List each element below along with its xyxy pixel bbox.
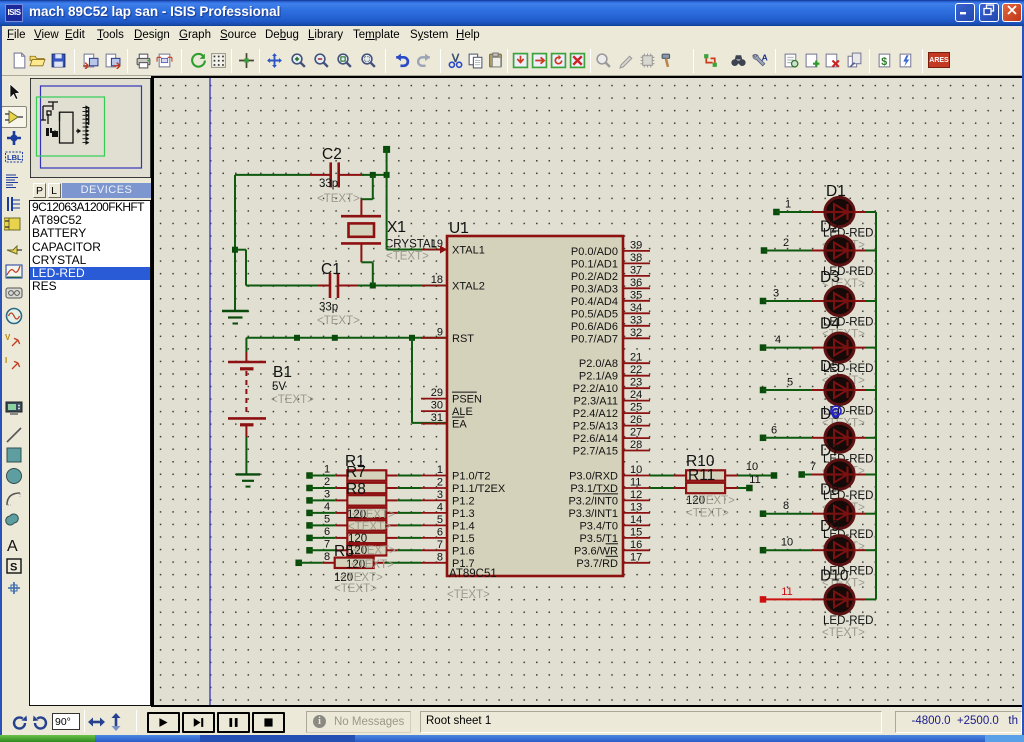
svg-text:<TEXT>: <TEXT> bbox=[317, 315, 360, 327]
svg-text:I: I bbox=[5, 356, 7, 365]
svg-text:25: 25 bbox=[630, 402, 642, 414]
svg-text:C1: C1 bbox=[321, 261, 341, 278]
svg-text:B1: B1 bbox=[273, 364, 292, 381]
svg-text:P1.4: P1.4 bbox=[452, 520, 475, 532]
svg-text:EA: EA bbox=[452, 419, 467, 431]
svg-text:7: 7 bbox=[324, 538, 330, 550]
svg-text:13: 13 bbox=[630, 501, 642, 513]
svg-text:P0.7/AD7: P0.7/AD7 bbox=[571, 333, 618, 345]
svg-text:XTAL2: XTAL2 bbox=[452, 281, 485, 293]
svg-text:P3.0/RXD: P3.0/RXD bbox=[569, 471, 618, 483]
svg-text:10: 10 bbox=[781, 537, 793, 549]
svg-text:P0.5/AD5: P0.5/AD5 bbox=[571, 308, 618, 320]
svg-text:D9: D9 bbox=[820, 518, 840, 535]
svg-text:D2: D2 bbox=[820, 219, 840, 236]
svg-text:P2.4/A12: P2.4/A12 bbox=[573, 408, 618, 420]
svg-text:5V: 5V bbox=[272, 381, 286, 393]
svg-text:LBL: LBL bbox=[7, 153, 22, 162]
svg-text:1: 1 bbox=[785, 199, 791, 211]
svg-text:P2.5/A13: P2.5/A13 bbox=[573, 421, 618, 433]
svg-text:18: 18 bbox=[431, 274, 443, 286]
svg-text:39: 39 bbox=[630, 239, 642, 251]
svg-text:28: 28 bbox=[630, 439, 642, 451]
svg-text:P2.2/A10: P2.2/A10 bbox=[573, 383, 618, 395]
svg-text:38: 38 bbox=[630, 252, 642, 264]
svg-text:D10: D10 bbox=[820, 567, 849, 584]
svg-text:31: 31 bbox=[431, 412, 443, 424]
svg-text:5: 5 bbox=[787, 377, 793, 389]
svg-text:35: 35 bbox=[630, 289, 642, 301]
svg-text:XTAL1: XTAL1 bbox=[452, 245, 485, 257]
svg-text:<TEXT>: <TEXT> bbox=[353, 545, 396, 557]
svg-text:<TEXT>: <TEXT> bbox=[447, 589, 490, 601]
svg-text:D8: D8 bbox=[820, 482, 840, 499]
svg-text:5: 5 bbox=[437, 514, 443, 526]
svg-text:29: 29 bbox=[431, 387, 443, 399]
svg-text:P0.3/AD3: P0.3/AD3 bbox=[571, 283, 618, 295]
svg-text:P3.7/RD: P3.7/RD bbox=[576, 558, 618, 570]
svg-text:26: 26 bbox=[630, 414, 642, 426]
svg-text:D1: D1 bbox=[826, 183, 846, 200]
svg-text:P3.2/INT0: P3.2/INT0 bbox=[568, 495, 618, 507]
svg-text:12: 12 bbox=[630, 489, 642, 501]
svg-text:7: 7 bbox=[810, 461, 816, 473]
svg-text:P3.1/TXD: P3.1/TXD bbox=[570, 483, 618, 495]
svg-text:P1.3: P1.3 bbox=[452, 508, 475, 520]
svg-text:P1.6: P1.6 bbox=[452, 545, 475, 557]
svg-text:1: 1 bbox=[437, 464, 443, 476]
svg-text:<TEXT>: <TEXT> bbox=[334, 583, 377, 595]
svg-text:PSEN: PSEN bbox=[452, 394, 482, 406]
svg-text:3: 3 bbox=[773, 288, 779, 300]
svg-text:P3.4/T0: P3.4/T0 bbox=[579, 520, 618, 532]
svg-text:3: 3 bbox=[324, 488, 330, 500]
svg-text:P2.3/A11: P2.3/A11 bbox=[574, 396, 618, 408]
svg-text:R7: R7 bbox=[346, 464, 366, 481]
svg-text:ALE: ALE bbox=[452, 406, 473, 418]
svg-text:37: 37 bbox=[630, 264, 642, 276]
svg-text:4: 4 bbox=[324, 501, 330, 513]
svg-text:8: 8 bbox=[324, 551, 330, 563]
svg-text:14: 14 bbox=[630, 514, 642, 526]
svg-text:2: 2 bbox=[324, 476, 330, 488]
svg-text:D3: D3 bbox=[820, 269, 840, 286]
svg-text:36: 36 bbox=[630, 277, 642, 289]
svg-text:A: A bbox=[762, 53, 768, 63]
svg-text:P0.0/AD0: P0.0/AD0 bbox=[571, 246, 618, 258]
svg-text:11: 11 bbox=[781, 586, 792, 598]
svg-text:P0.4/AD4: P0.4/AD4 bbox=[571, 296, 618, 308]
svg-text:C2: C2 bbox=[322, 146, 342, 163]
svg-text:<TEXT>: <TEXT> bbox=[348, 521, 391, 533]
svg-text:2: 2 bbox=[783, 237, 789, 249]
svg-text:10: 10 bbox=[746, 461, 758, 473]
svg-text:5: 5 bbox=[324, 513, 330, 525]
svg-text:21: 21 bbox=[630, 352, 642, 364]
svg-text:<TEXT>: <TEXT> bbox=[271, 394, 314, 406]
svg-text:32: 32 bbox=[630, 327, 642, 339]
svg-text:33p: 33p bbox=[319, 178, 338, 190]
svg-text:<TEXT>: <TEXT> bbox=[317, 193, 360, 205]
svg-text:P1.0/T2: P1.0/T2 bbox=[452, 471, 491, 483]
svg-text:<TEXT>: <TEXT> bbox=[386, 251, 429, 263]
svg-text:16: 16 bbox=[630, 539, 642, 551]
svg-text:P1.5: P1.5 bbox=[452, 533, 475, 545]
svg-text:V: V bbox=[5, 333, 11, 342]
svg-text:RST: RST bbox=[452, 333, 474, 345]
svg-text:P0.2/AD2: P0.2/AD2 bbox=[571, 271, 618, 283]
svg-text:A: A bbox=[7, 538, 18, 555]
svg-text:3: 3 bbox=[437, 489, 443, 501]
svg-text:17: 17 bbox=[630, 551, 642, 563]
svg-text:$: $ bbox=[881, 56, 887, 68]
svg-text:R11: R11 bbox=[688, 467, 715, 484]
svg-text:6: 6 bbox=[771, 424, 777, 436]
svg-text:22: 22 bbox=[630, 364, 642, 376]
svg-text:P0.1/AD1: P0.1/AD1 bbox=[571, 258, 618, 270]
svg-text:30: 30 bbox=[431, 400, 443, 412]
svg-text:D7: D7 bbox=[820, 443, 840, 460]
svg-text:P1.7: P1.7 bbox=[452, 558, 475, 570]
svg-text:7: 7 bbox=[437, 539, 443, 551]
svg-text:11: 11 bbox=[630, 477, 641, 489]
svg-text:8: 8 bbox=[783, 500, 789, 512]
svg-text:U1: U1 bbox=[449, 220, 469, 237]
svg-text:34: 34 bbox=[630, 302, 642, 314]
svg-text:24: 24 bbox=[630, 389, 642, 401]
svg-text:P1.1/T2EX: P1.1/T2EX bbox=[452, 483, 506, 495]
svg-text:S: S bbox=[10, 562, 17, 574]
svg-text:P1.2: P1.2 bbox=[452, 495, 475, 507]
svg-text:33: 33 bbox=[630, 314, 642, 326]
svg-text:<TEXT>: <TEXT> bbox=[692, 495, 735, 507]
svg-text:15: 15 bbox=[630, 526, 642, 538]
svg-text:LED-RED: LED-RED bbox=[823, 615, 873, 627]
svg-text:6: 6 bbox=[324, 526, 330, 538]
svg-text:9: 9 bbox=[437, 326, 443, 338]
svg-text:P3.6/WR: P3.6/WR bbox=[574, 545, 618, 557]
svg-text:<TEXT>: <TEXT> bbox=[822, 627, 865, 639]
svg-text:1: 1 bbox=[324, 464, 330, 476]
svg-text:2: 2 bbox=[437, 477, 443, 489]
svg-text:P2.7/A15: P2.7/A15 bbox=[573, 446, 618, 458]
svg-text:6: 6 bbox=[437, 526, 443, 538]
svg-text:<TEXT>: <TEXT> bbox=[686, 508, 729, 520]
svg-text:23: 23 bbox=[630, 377, 642, 389]
svg-text:P3.3/INT1: P3.3/INT1 bbox=[568, 508, 618, 520]
svg-text:33p: 33p bbox=[319, 302, 338, 314]
svg-text:4: 4 bbox=[437, 501, 443, 513]
svg-text:11: 11 bbox=[749, 474, 760, 486]
svg-text:R8: R8 bbox=[346, 481, 366, 498]
svg-text:P2.1/A9: P2.1/A9 bbox=[579, 371, 618, 383]
svg-text:P2.0/A8: P2.0/A8 bbox=[579, 358, 618, 370]
svg-text:<TEXT>: <TEXT> bbox=[351, 559, 394, 571]
svg-text:D5: D5 bbox=[820, 358, 840, 375]
svg-text:<TEXT>: <TEXT> bbox=[352, 509, 395, 521]
svg-text:X1: X1 bbox=[387, 219, 406, 236]
svg-text:P2.6/A14: P2.6/A14 bbox=[573, 433, 618, 445]
svg-text:D4: D4 bbox=[820, 316, 840, 333]
svg-text:4: 4 bbox=[775, 334, 781, 346]
svg-text:P3.5/T1: P3.5/T1 bbox=[579, 533, 618, 545]
svg-text:P0.6/AD6: P0.6/AD6 bbox=[571, 321, 618, 333]
svg-text:10: 10 bbox=[630, 464, 642, 476]
svg-text:8: 8 bbox=[437, 551, 443, 563]
svg-text:27: 27 bbox=[630, 427, 642, 439]
